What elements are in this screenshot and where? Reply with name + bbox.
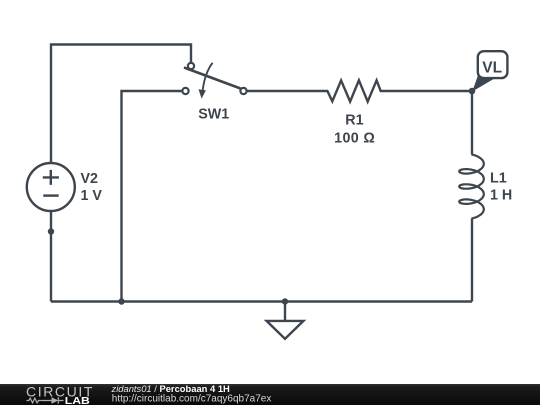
svg-text:100 Ω: 100 Ω <box>334 130 375 146</box>
svg-text:http://circuitlab.com/c7aqy6qb: http://circuitlab.com/c7aqy6qb7a7ex <box>112 393 272 404</box>
svg-text:R1: R1 <box>345 113 363 129</box>
svg-text:SW1: SW1 <box>198 106 229 122</box>
svg-text:1 V: 1 V <box>81 188 103 204</box>
svg-text:LAB: LAB <box>65 396 90 405</box>
svg-text:V2: V2 <box>81 171 99 187</box>
svg-text:L1: L1 <box>490 171 507 187</box>
svg-text:VL: VL <box>482 59 502 76</box>
svg-text:1 H: 1 H <box>490 188 512 204</box>
